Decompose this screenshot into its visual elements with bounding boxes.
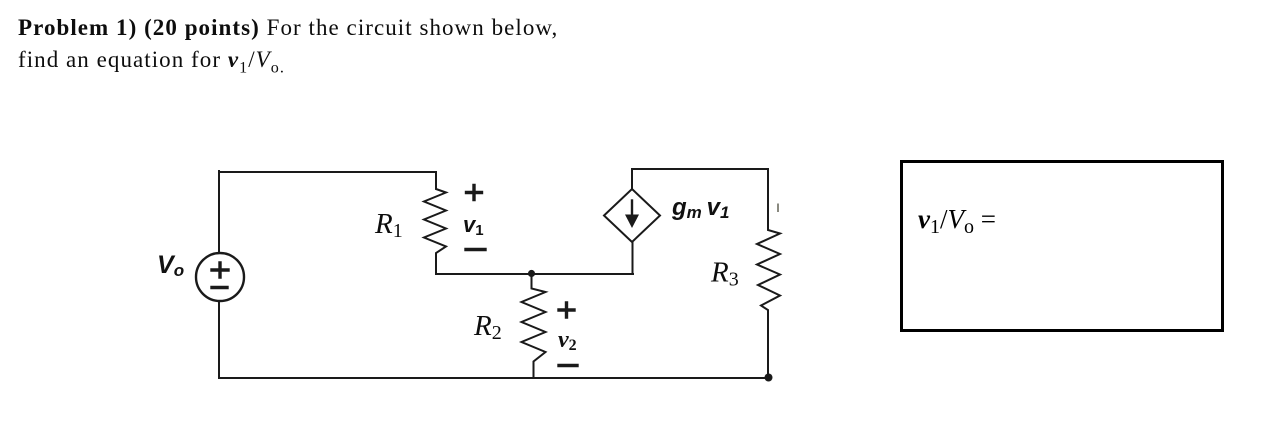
resistor R3 xyxy=(757,169,780,378)
current source gm*v1 (diamond with down arrow) xyxy=(604,189,660,242)
wire: left vertical bottom xyxy=(218,301,220,378)
label - polarity of v1 xyxy=(466,248,485,251)
label + polarity of v1 xyxy=(467,186,482,200)
wire: middle horizontal xyxy=(436,273,633,275)
wire: current source top lead xyxy=(631,169,633,189)
answer box xyxy=(902,162,1223,331)
svg-text:R2: R2 xyxy=(473,310,502,344)
wire: top-left horizontal xyxy=(219,171,436,173)
svg-text:R3: R3 xyxy=(710,257,739,291)
svg-text:v1/Vo =: v1/Vo = xyxy=(918,204,996,238)
resistor R2 xyxy=(522,274,546,378)
svg-text:v1: v1 xyxy=(463,212,484,239)
resistor R1 xyxy=(424,172,446,274)
svg-text:v2: v2 xyxy=(558,327,577,354)
node A junction dot xyxy=(528,270,535,277)
svg-text:gm v1: gm v1 xyxy=(671,194,729,222)
wire: top-right horizontal xyxy=(632,168,768,170)
wire: left vertical top xyxy=(218,171,220,253)
wire: current source bottom lead xyxy=(632,242,634,274)
voltage source V0 xyxy=(196,253,244,301)
node B bottom-right junction dot xyxy=(765,374,773,382)
wire: stray lead mark above R3 xyxy=(777,205,779,212)
label + polarity of v2 xyxy=(559,303,574,317)
svg-text:Vo: Vo xyxy=(157,251,184,280)
title text xyxy=(18,12,558,85)
label - polarity of v2 xyxy=(559,364,577,367)
svg-text:R1: R1 xyxy=(374,208,403,242)
wire: bottom horizontal xyxy=(219,377,769,379)
